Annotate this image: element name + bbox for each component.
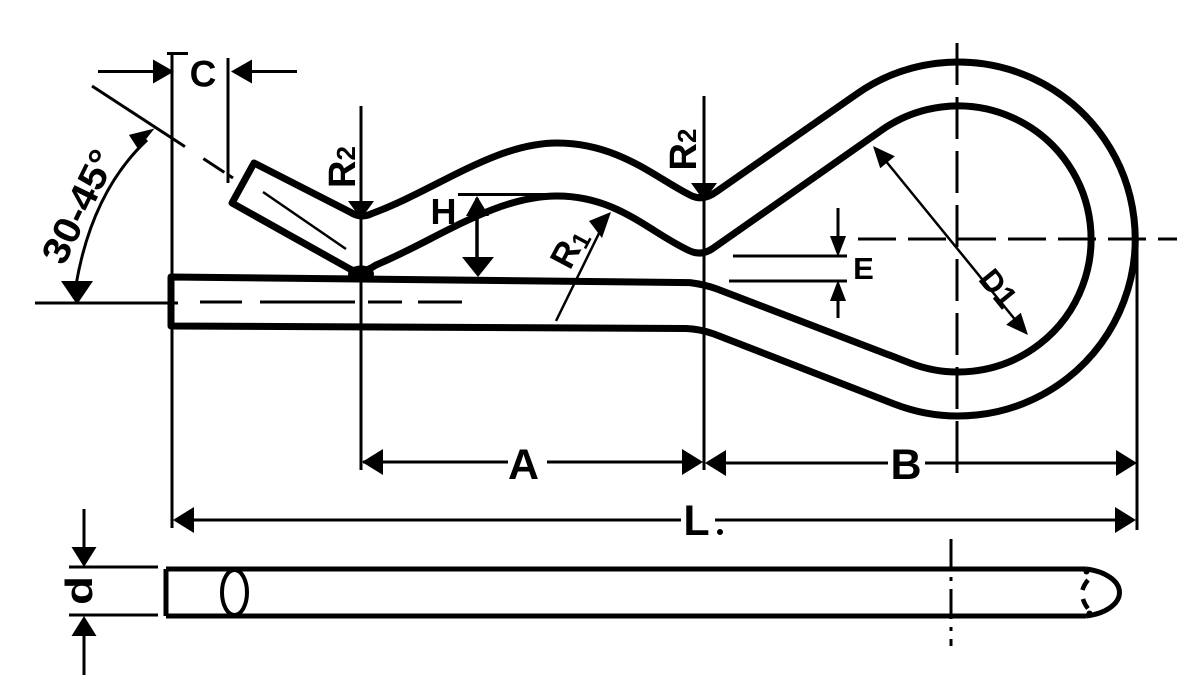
ellipse mark on rod near left end bbox=[222, 570, 247, 615]
hairpin cotter pin body (shank, loop, wavy prong, bent arm) bbox=[171, 62, 1135, 416]
angle arc arrowhead top bbox=[129, 129, 155, 150]
dimension L line right segment bbox=[715, 519, 1133, 522]
dimension L arrowhead right bbox=[1115, 507, 1136, 533]
extension line at bent arm end (right side of C) bbox=[227, 58, 230, 183]
dimension C line right bbox=[250, 70, 297, 73]
svg-text:E: E bbox=[853, 251, 874, 286]
dimension H extension line bbox=[458, 193, 557, 196]
accent line inside bent arm bbox=[263, 192, 346, 249]
dashed bend mark on rod cap bbox=[1083, 569, 1093, 617]
R2 left leader line bbox=[360, 106, 363, 470]
dimension d arrowhead down bbox=[72, 547, 97, 567]
R2 right leader line bbox=[703, 96, 706, 470]
dimension D1 diagonal line bbox=[876, 149, 1026, 333]
dimension B line right segment bbox=[925, 462, 1134, 465]
dimension E arrowhead down bbox=[830, 236, 846, 257]
dimension d extension line lower bbox=[69, 614, 158, 617]
loop vertical dashed centerline bbox=[956, 43, 959, 473]
R1 leader line bbox=[556, 219, 606, 321]
dimension E leader above bbox=[837, 208, 840, 240]
straightened pin rod rounded right cap bbox=[1086, 569, 1119, 616]
dimension H line bbox=[475, 198, 479, 262]
R1 arrowhead bbox=[589, 212, 611, 238]
dashed arm-axis extension line bbox=[92, 86, 233, 178]
straightened pin rod left end face bbox=[164, 569, 169, 616]
dimension E extension line lower bbox=[729, 280, 847, 283]
svg-text:L: L bbox=[683, 497, 709, 545]
svg-text:A: A bbox=[508, 441, 539, 489]
dimension L arrowhead left bbox=[173, 507, 194, 533]
dimension D1 arrowhead upper bbox=[873, 146, 895, 168]
straightened pin rod top line bbox=[166, 567, 1086, 572]
R2 right arrowhead bbox=[691, 183, 717, 201]
dimension d leader above bbox=[83, 509, 86, 549]
svg-text:C: C bbox=[190, 54, 217, 95]
dimension A arrowhead right bbox=[682, 449, 703, 475]
angle arc arrowhead bottom bbox=[61, 281, 93, 305]
dimension H arrowhead down bbox=[462, 257, 494, 277]
svg-text:B: B bbox=[890, 441, 921, 489]
dimension E extension line upper bbox=[733, 255, 847, 258]
dimension E leader below bbox=[837, 297, 840, 318]
extension line at pin left end (datum for C and L) bbox=[167, 52, 188, 528]
dimension B line left segment bbox=[708, 462, 888, 465]
svg-text:d: d bbox=[58, 576, 100, 605]
period after L bbox=[717, 529, 723, 535]
rod vertical dash-dot centerline bbox=[950, 539, 953, 646]
dimension C arrowhead right bbox=[231, 60, 252, 84]
R2 left arrowhead bbox=[348, 201, 374, 219]
angle arc 30-45 degrees bbox=[76, 140, 147, 285]
straightened pin rod bottom line bbox=[166, 614, 1086, 619]
dimension B arrowhead left bbox=[705, 450, 726, 476]
dimension d extension line upper bbox=[69, 566, 158, 569]
shank dash-dot centerline bbox=[200, 301, 462, 304]
dimension E arrowhead up bbox=[830, 280, 846, 301]
dimension H arrowhead up bbox=[466, 196, 489, 216]
dimension A line left segment bbox=[363, 461, 508, 464]
dimension d arrowhead up bbox=[72, 616, 97, 636]
dimension B arrowhead right bbox=[1116, 450, 1137, 476]
junction blob where prong meets shank bbox=[348, 266, 374, 283]
extension line at loop right (datum for B and L) bbox=[1136, 238, 1139, 530]
dimension C line left bbox=[98, 70, 155, 73]
dimension D1 arrowhead lower bbox=[1006, 313, 1028, 335]
dimension A arrowhead left bbox=[362, 449, 383, 475]
loop horizontal dashed centerline bbox=[858, 238, 1177, 241]
dimension C arrowhead left bbox=[153, 60, 174, 84]
svg-text:H: H bbox=[431, 191, 457, 232]
shank centerline left solid segment bbox=[35, 302, 178, 305]
dimension A line right segment bbox=[547, 461, 700, 464]
dimension d leader below bbox=[83, 634, 86, 675]
dimension L line left segment bbox=[176, 519, 681, 522]
